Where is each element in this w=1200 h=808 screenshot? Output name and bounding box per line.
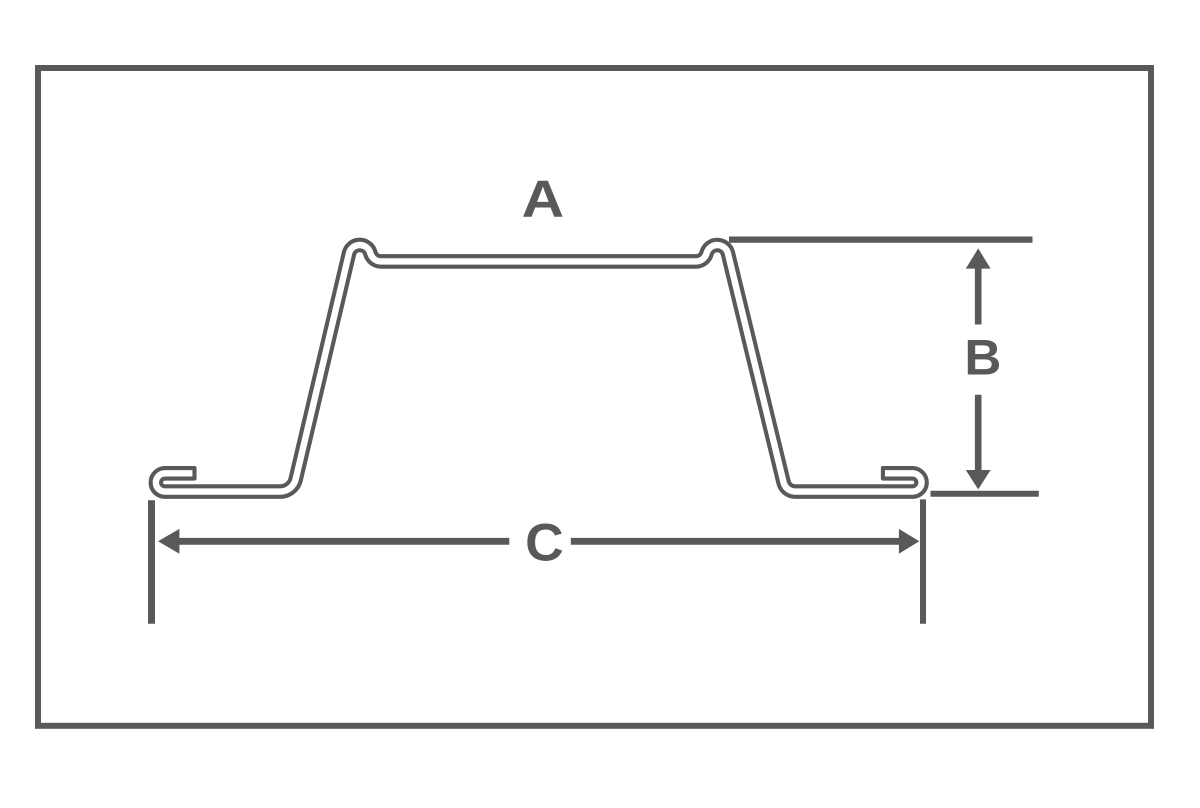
svg-text:A: A	[522, 169, 565, 227]
svg-text:C: C	[525, 513, 564, 572]
svg-text:B: B	[964, 330, 1001, 386]
